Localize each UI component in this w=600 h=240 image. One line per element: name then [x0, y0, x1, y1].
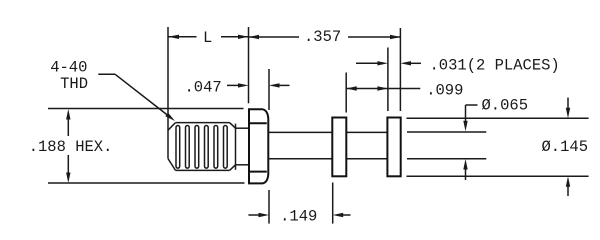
extension line flange2 right (. 357 / .031) — [399, 28, 401, 111]
dimension L arrowhead right — [238, 35, 249, 39]
svg-text:.031(2 PLACES): .031(2 PLACES) — [430, 56, 560, 74]
thread root lines — [176, 126, 227, 169]
dimension .188 top extension line — [48, 108, 244, 110]
dimension .047 left arrowhead — [238, 83, 249, 87]
extension line hex right bottom (.149) — [268, 190, 270, 224]
flange 1 — [332, 118, 346, 177]
thread top-left chamfer — [168, 123, 176, 131]
thread right chamfer bottom — [230, 165, 236, 171]
Ø.145 down arrow line — [567, 98, 569, 110]
svg-text:.149: .149 — [280, 207, 317, 225]
body outer bottom line (Ø.145) — [407, 175, 589, 177]
hex body outline — [249, 109, 268, 183]
Ø.065 up arrowhead — [463, 159, 467, 170]
dimension .099 arrowhead left — [346, 86, 357, 90]
dimension .047 left arrow line — [227, 84, 240, 86]
shaft segment 2 bottom — [346, 158, 387, 160]
extension line flange1 left bottom (.149) — [332, 183, 334, 224]
svg-text:Ø.065: Ø.065 — [482, 97, 529, 115]
svg-text:.099: .099 — [426, 81, 463, 99]
thread left face / extension line — [167, 27, 169, 159]
thread end face vertical — [235, 124, 237, 170]
body outer top line (Ø.145) — [407, 117, 589, 119]
leader 4-40 diagonal — [115, 74, 169, 116]
flange 2 — [387, 118, 400, 177]
Ø.145 up arrow line — [567, 186, 569, 196]
svg-text:.047: .047 — [185, 78, 222, 96]
extension line flange1 right (.099) — [345, 73, 347, 113]
thread right chamfer top — [230, 123, 236, 129]
dimension .357 arrowhead left — [249, 35, 260, 39]
neck top line — [236, 127, 249, 129]
shaft segment 2 top — [346, 131, 387, 133]
dimension .357 arrowhead right — [390, 35, 400, 39]
dimension .099 arrowhead right — [377, 86, 388, 90]
dimension L arrowhead left — [168, 35, 179, 39]
Ø.065 up arrow line — [465, 168, 467, 180]
leader Ø.065 horizontal — [466, 104, 478, 106]
dimension .188 up arrow line — [67, 119, 69, 136]
leader 4-40 horizontal — [98, 73, 115, 75]
dimension .031 right arrowhead — [400, 61, 411, 65]
leader Ø.065 down arrowhead — [463, 121, 467, 132]
Ø.145 up arrowhead — [566, 176, 570, 187]
dimension L line left — [168, 36, 197, 38]
dimension .357 line right — [348, 36, 400, 38]
svg-text:L: L — [203, 29, 212, 47]
svg-text:.357: .357 — [304, 28, 341, 46]
svg-text:Ø.145: Ø.145 — [542, 138, 589, 156]
dimension .031 left arrowhead — [377, 61, 388, 65]
pin top line (Ø.065) — [407, 131, 486, 133]
extension line hex left face (L / .357 / .047) — [248, 27, 250, 103]
dimension .047 right arrowhead — [269, 83, 280, 87]
shaft segment 1 bottom — [268, 158, 332, 160]
dimension .099 line — [346, 88, 420, 90]
dimension .031 left arrow line — [356, 62, 379, 64]
leader Ø.065 vertical down arrow line — [465, 105, 467, 123]
dimension .149 right arrowhead — [333, 213, 344, 217]
dimension .188 bottom extension line — [48, 182, 245, 184]
dimension .149 right arrow line — [342, 214, 351, 216]
leader 4-40 arrowhead — [165, 113, 175, 121]
pin bottom line (Ø.065) — [407, 158, 486, 160]
neck bottom line — [236, 164, 249, 166]
dimension .188 down arrowhead — [66, 173, 70, 184]
dimension .188 down arrow line — [67, 155, 69, 173]
thread bottom-left chamfer — [168, 159, 176, 171]
shaft segment 1 top — [268, 131, 332, 133]
dimension .188 up arrowhead — [66, 109, 70, 120]
extension line hex right top (.047) — [268, 69, 270, 110]
hex chamfer line top — [250, 122, 267, 124]
svg-text:THD: THD — [60, 75, 88, 93]
dimension .149 left arrowhead — [259, 213, 270, 217]
thread crest bottom line — [176, 169, 230, 171]
Ø.145 down arrowhead — [566, 108, 570, 119]
svg-text:.188 HEX.: .188 HEX. — [29, 138, 113, 156]
dimension .357 line left — [249, 36, 300, 38]
dimension .031 right arrow line — [410, 62, 422, 64]
thread crest top line — [176, 122, 230, 124]
extension line flange2 left (.031 / .099) — [387, 48, 389, 112]
dimension L line right — [221, 36, 249, 38]
dimension .149 left arrow line — [248, 214, 260, 216]
hex chamfer line bottom — [250, 171, 267, 173]
dimension .047 right arrow line — [279, 84, 290, 86]
